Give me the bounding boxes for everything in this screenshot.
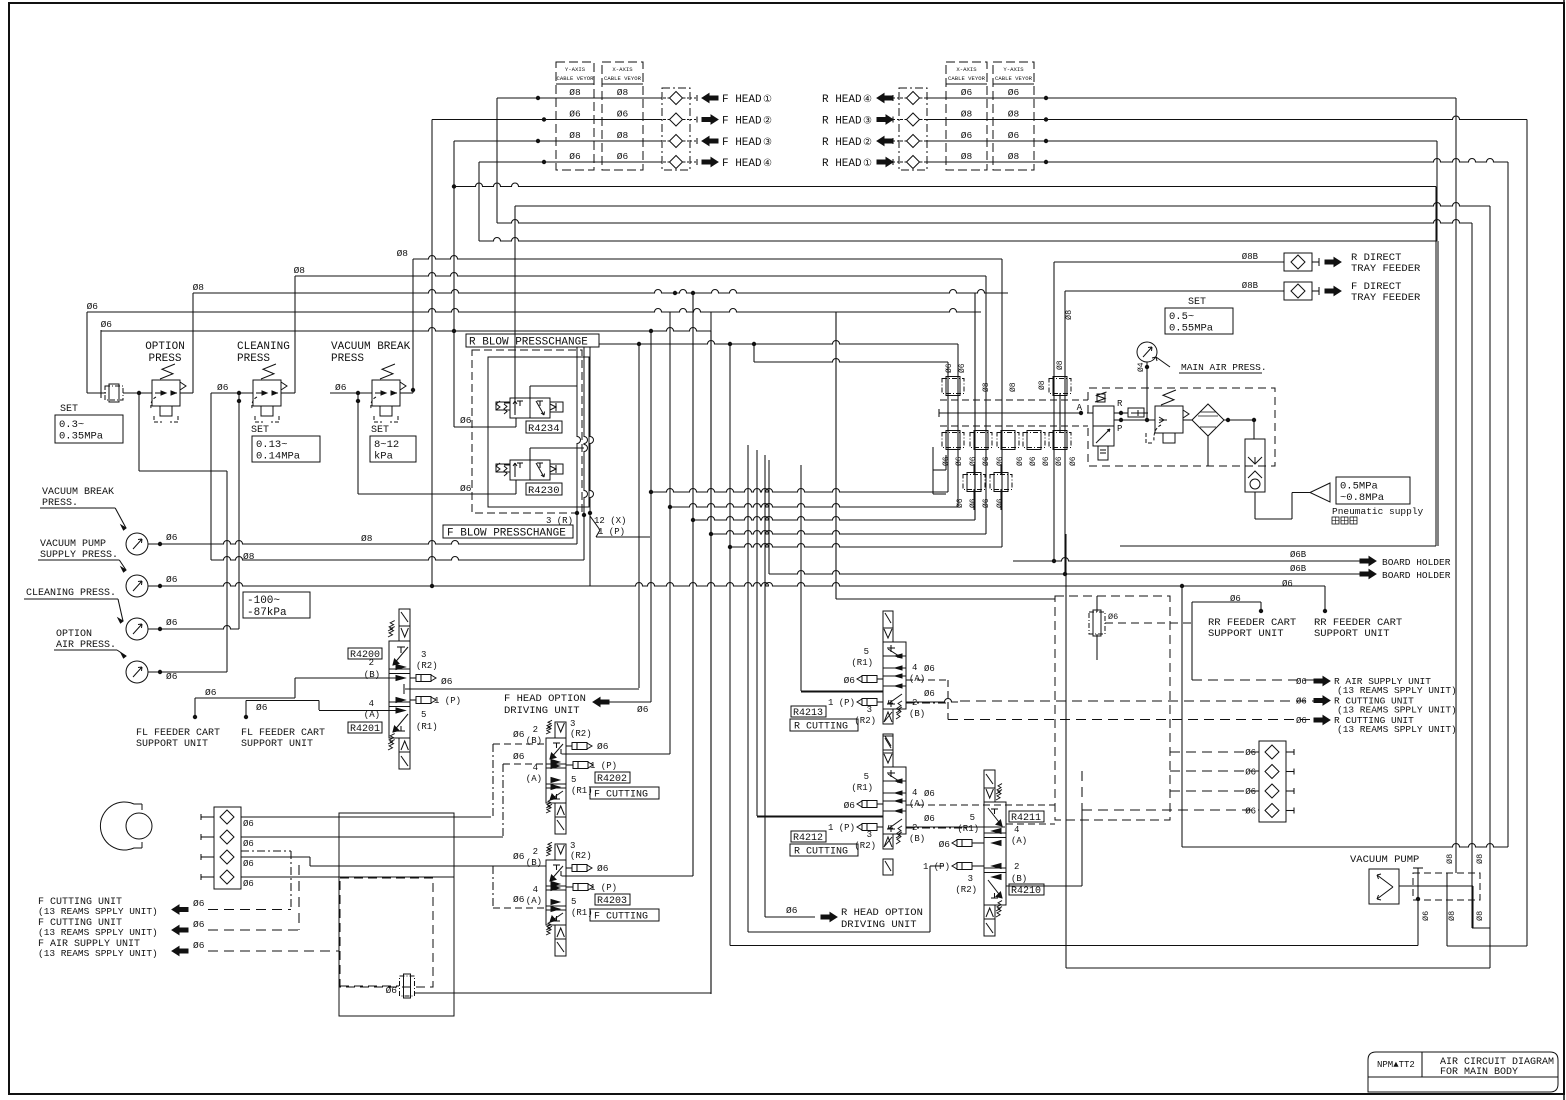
wire	[180, 392, 193, 394]
wire board holder feeds	[1053, 262, 1055, 561]
wire dashed R cutting 1	[960, 700, 1316, 702]
svg-text:Ø6: Ø6	[1055, 456, 1064, 466]
svg-text:Ø6: Ø6	[243, 879, 254, 889]
svg-text:1 (P): 1 (P)	[590, 883, 617, 893]
svg-text:R HEAD: R HEAD	[822, 137, 862, 149]
check valve F DIRECT	[1284, 282, 1312, 300]
svg-text:Ø6: Ø6	[1296, 716, 1307, 726]
fitting Ø6 bottom	[400, 976, 415, 996]
svg-text:BOARD HOLDER: BOARD HOLDER	[1382, 557, 1451, 568]
svg-text:Ø6: Ø6	[256, 702, 268, 713]
wire	[358, 493, 516, 495]
svg-text:Ø8: Ø8	[193, 282, 205, 293]
wire R head 4	[926, 159, 1508, 162]
unit label R CUTTING UNIT	[1314, 696, 1330, 705]
svg-text:0.35MPa: 0.35MPa	[59, 430, 103, 442]
svg-text:Ø8: Ø8	[1447, 911, 1457, 921]
svg-text:Ø6: Ø6	[166, 574, 178, 585]
coupler	[670, 156, 683, 169]
wire R head 1	[926, 97, 1456, 99]
svg-text:5: 5	[421, 710, 426, 720]
wire R head 2	[926, 116, 1527, 119]
svg-text:PRESS: PRESS	[237, 353, 270, 365]
svg-text:Ø8: Ø8	[294, 265, 306, 276]
wire reg1 drain	[138, 393, 140, 471]
R head coupler box	[899, 88, 927, 170]
wire	[974, 293, 976, 520]
svg-text:Ø6: Ø6	[1029, 456, 1038, 466]
wire	[710, 331, 712, 994]
svg-text:Ø6: Ø6	[982, 498, 991, 508]
svg-text:R4202: R4202	[597, 774, 627, 785]
wire gauge2 long line	[148, 583, 1325, 587]
fitting	[1023, 433, 1045, 448]
wire v836	[835, 312, 837, 599]
gauge line Ø4	[1146, 362, 1148, 420]
wire	[123, 392, 152, 394]
svg-text:OPTION: OPTION	[56, 629, 92, 640]
wire 2B	[295, 677, 396, 679]
wire	[609, 701, 651, 703]
wire dashed to rr	[1105, 622, 1192, 624]
svg-text:Ø8: Ø8	[1475, 911, 1485, 921]
fitting	[997, 433, 1019, 448]
wire stair 492	[651, 489, 948, 492]
svg-text:Ø8: Ø8	[569, 130, 581, 141]
svg-text:Ø6: Ø6	[924, 789, 935, 799]
svg-text:Ø6: Ø6	[243, 859, 254, 869]
check valve	[220, 850, 234, 864]
svg-text:(B): (B)	[1011, 874, 1027, 884]
wire board holder 2	[769, 571, 1360, 575]
svg-text:Ø6: Ø6	[996, 456, 1005, 466]
wire	[768, 460, 770, 574]
wire	[211, 392, 253, 394]
wire	[973, 465, 975, 475]
svg-text:A: A	[1077, 403, 1083, 413]
wire	[1224, 419, 1254, 421]
svg-text:F HEAD: F HEAD	[722, 116, 762, 128]
svg-text:Ø8: Ø8	[1056, 360, 1065, 370]
svg-text:R4213: R4213	[793, 708, 823, 719]
svg-text:Ø6: Ø6	[386, 985, 398, 996]
wire	[1455, 98, 1457, 873]
check valve stack right	[1259, 741, 1286, 822]
svg-text:SUPPORT UNIT: SUPPORT UNIT	[136, 739, 208, 750]
svg-text:Ø6: Ø6	[956, 498, 965, 508]
label R4212	[791, 831, 826, 842]
wire	[1066, 967, 1490, 969]
svg-text:Ø6: Ø6	[441, 676, 453, 687]
wire	[1399, 885, 1473, 887]
svg-text:Ø6: Ø6	[955, 456, 964, 466]
svg-text:3: 3	[867, 705, 872, 715]
wire stair 507	[670, 504, 958, 508]
svg-text:R4203: R4203	[597, 896, 627, 907]
svg-text:①: ①	[863, 158, 872, 170]
svg-text:(A): (A)	[526, 774, 542, 784]
fittings row 2	[963, 475, 985, 490]
svg-text:2: 2	[369, 658, 374, 668]
F head coupler box	[662, 88, 690, 170]
svg-text:(R2): (R2)	[416, 661, 438, 671]
wire dashdot	[290, 851, 292, 910]
svg-text:Ø8: Ø8	[1064, 310, 1074, 320]
wire h362	[754, 359, 948, 363]
svg-text:P: P	[1117, 424, 1122, 434]
wire bus 186	[454, 183, 1436, 186]
wire	[454, 426, 516, 428]
wire	[453, 141, 455, 427]
wire dashed 4A R4212	[906, 804, 1055, 806]
label R4213	[791, 706, 826, 717]
wire	[710, 331, 712, 994]
svg-text:CLEANING PRESS.: CLEANING PRESS.	[26, 588, 116, 599]
svg-text:1 (P): 1 (P)	[828, 698, 855, 708]
coupler	[907, 156, 920, 169]
air unit dashed box	[1088, 388, 1275, 466]
svg-text:Ø6: Ø6	[1042, 456, 1051, 466]
svg-text:Pneumatic supply: Pneumatic supply	[1332, 506, 1424, 517]
valve R4200/R4201 double solenoid	[399, 609, 410, 626]
wire board holder 1	[1013, 558, 1360, 562]
silencer R4203 R2	[566, 867, 572, 869]
svg-text:Ø8: Ø8	[1009, 382, 1018, 392]
svg-text:5: 5	[864, 772, 869, 782]
wire	[764, 455, 766, 917]
svg-text:Ø6: Ø6	[637, 704, 649, 715]
svg-text:Ø6B: Ø6B	[1290, 564, 1307, 574]
silencer R4212	[862, 801, 877, 808]
svg-text:BOARD HOLDER: BOARD HOLDER	[1382, 570, 1451, 581]
svg-text:Ø6: Ø6	[513, 851, 525, 862]
wire	[729, 344, 731, 946]
svg-text:Ø6: Ø6	[1008, 87, 1020, 98]
svg-text:SUPPORT UNIT: SUPPORT UNIT	[1314, 628, 1390, 640]
wire	[589, 513, 591, 586]
wire	[414, 992, 711, 994]
wire	[650, 331, 652, 702]
X-axis cable veyor (right)	[946, 62, 987, 170]
svg-text:2: 2	[1014, 862, 1019, 872]
wire	[1489, 928, 1491, 968]
svg-text:Ø6: Ø6	[513, 729, 525, 740]
svg-text:R4234: R4234	[528, 423, 560, 435]
svg-text:Y-AXIS: Y-AXIS	[565, 66, 586, 73]
check valve	[220, 870, 234, 884]
wire dashed 4A R4213	[906, 679, 948, 681]
svg-text:Ø6: Ø6	[597, 741, 609, 752]
svg-text:Ø8: Ø8	[361, 533, 373, 544]
wire dashed P R4202	[503, 763, 546, 765]
svg-text:3: 3	[570, 719, 575, 729]
wire	[431, 120, 433, 588]
wire	[1437, 241, 1439, 546]
svg-text:0.13~: 0.13~	[256, 439, 288, 451]
wire presschange verticals	[577, 347, 581, 513]
svg-text:0.5MPa: 0.5MPa	[1340, 481, 1378, 493]
svg-text:Ø6: Ø6	[193, 940, 205, 951]
fitting	[1049, 433, 1071, 448]
svg-text:(B): (B)	[909, 709, 925, 719]
wire	[281, 392, 295, 394]
svg-text:4: 4	[369, 699, 374, 709]
wire	[1446, 900, 1448, 946]
valve R4230	[510, 460, 530, 480]
label R CUTTING R4213	[790, 719, 858, 731]
wire	[241, 836, 503, 838]
wire	[1182, 844, 1508, 847]
coupler	[907, 113, 920, 126]
svg-text:Ø6: Ø6	[1245, 807, 1256, 817]
svg-text:SET: SET	[371, 425, 389, 436]
svg-text:3: 3	[968, 874, 973, 884]
svg-text:R HEAD OPTION: R HEAD OPTION	[841, 907, 923, 919]
svg-text:TRAY FEEDER: TRAY FEEDER	[1351, 292, 1421, 304]
svg-text:Ø6: Ø6	[786, 905, 798, 916]
svg-text:R4212: R4212	[793, 833, 823, 844]
wire feed	[801, 691, 883, 693]
wire	[86, 312, 88, 393]
svg-text:Ø8: Ø8	[961, 151, 973, 162]
svg-text:1 (P): 1 (P)	[828, 823, 855, 833]
wire out	[562, 753, 671, 755]
svg-text:Y-AXIS: Y-AXIS	[1003, 66, 1024, 73]
coupler	[670, 135, 683, 148]
svg-text:(A): (A)	[909, 799, 925, 809]
wire	[357, 393, 359, 494]
svg-text:SET: SET	[1188, 297, 1206, 308]
svg-text:R HEAD: R HEAD	[822, 94, 862, 106]
svg-text:Ø6: Ø6	[1421, 911, 1431, 921]
wire	[1065, 290, 1260, 292]
svg-text:Ø6: Ø6	[205, 687, 217, 698]
svg-text:(13 REAMS SPPLY UNIT): (13 REAMS SPPLY UNIT)	[38, 927, 158, 938]
svg-text:Ø6: Ø6	[1245, 787, 1256, 797]
svg-text:(R2): (R2)	[955, 885, 977, 895]
svg-text:Ø6: Ø6	[945, 363, 954, 373]
svg-text:R BLOW PRESSCHANGE: R BLOW PRESSCHANGE	[469, 337, 588, 349]
silencer P R4213	[862, 699, 877, 706]
wire dashdot	[492, 744, 494, 817]
svg-text:CABLE VEYOR: CABLE VEYOR	[604, 75, 642, 82]
wire	[1183, 419, 1192, 421]
wire dashdot	[502, 764, 504, 837]
wire 3R line	[599, 341, 958, 344]
wire	[836, 598, 1055, 600]
wire pump tee	[1413, 867, 1423, 869]
dashed box RR	[1055, 596, 1170, 820]
wire	[148, 671, 227, 673]
svg-text:Ø8B: Ø8B	[1242, 252, 1259, 262]
silencer R4202 P	[566, 764, 573, 766]
svg-text:F HEAD: F HEAD	[722, 94, 762, 106]
gauge MAIN AIR PRESS	[1137, 342, 1157, 362]
wire	[932, 447, 934, 494]
svg-text:PRESS.: PRESS.	[42, 498, 78, 509]
silencer 1 (P)	[957, 863, 972, 870]
svg-text:5: 5	[571, 897, 576, 907]
svg-text:Ø6: Ø6	[217, 382, 229, 393]
wire B R4212	[906, 826, 1005, 828]
svg-text:R4230: R4230	[528, 485, 560, 497]
dashed enclosure	[472, 350, 582, 513]
fitting Ø6	[1089, 612, 1105, 634]
wire 4A	[319, 710, 396, 712]
R BLOW PRESSCHANGE label	[466, 334, 599, 347]
fitting	[970, 433, 992, 448]
silencer R2	[410, 677, 416, 679]
svg-text:(13 REAMS SPPLY UNIT): (13 REAMS SPPLY UNIT)	[38, 906, 158, 917]
wire dashdot R4212	[906, 827, 970, 829]
wire	[241, 856, 310, 858]
svg-text:Ø6: Ø6	[961, 87, 973, 98]
svg-text:R HEAD: R HEAD	[822, 158, 862, 170]
solid box bottom left	[339, 813, 454, 1016]
check valve	[1265, 745, 1279, 759]
label R CUTTING R4212	[790, 844, 858, 856]
F HEAD4 label	[690, 161, 697, 163]
wire	[710, 312, 712, 993]
svg-text:VACUUM PUMP: VACUUM PUMP	[40, 539, 106, 550]
svg-text:Ø6: Ø6	[166, 617, 178, 628]
svg-text:R4201: R4201	[350, 724, 380, 735]
wire	[1001, 259, 1003, 547]
svg-text:Ø8: Ø8	[1008, 151, 1020, 162]
wire	[765, 916, 815, 918]
wire steps left	[945, 455, 947, 470]
wire	[1059, 393, 1061, 433]
check valve stack F	[214, 807, 241, 889]
wire F head 3	[454, 140, 662, 142]
svg-text:(13 REAMS SPPLY UNIT): (13 REAMS SPPLY UNIT)	[1337, 705, 1457, 716]
svg-text:Ø8: Ø8	[617, 130, 629, 141]
svg-text:Ø6: Ø6	[844, 800, 856, 811]
svg-text:Ø6: Ø6	[939, 839, 951, 850]
F BLOW PRESSCHANGE label	[443, 525, 573, 538]
dashed channel	[940, 399, 1088, 401]
svg-text:Ø6: Ø6	[844, 675, 856, 686]
wire	[583, 515, 585, 560]
check valve	[1265, 804, 1279, 818]
wire	[1507, 162, 1509, 847]
vacuum pump	[1369, 869, 1399, 904]
X-axis cable veyor (left)	[602, 62, 643, 170]
main regulator	[1155, 406, 1183, 433]
svg-text:TRAY FEEDER: TRAY FEEDER	[1351, 263, 1421, 275]
check unit	[1253, 420, 1255, 439]
svg-text:1 (P): 1 (P)	[434, 696, 461, 706]
svg-text:②: ②	[863, 137, 872, 149]
svg-text:R CUTTING: R CUTTING	[794, 847, 848, 858]
silencer P R4212	[862, 824, 877, 831]
svg-text:Ø6: Ø6	[101, 319, 113, 330]
F HEAD3 label	[690, 140, 697, 142]
svg-text:Ø4: Ø4	[1137, 362, 1146, 372]
Y-axis cable veyor (right)	[993, 62, 1034, 170]
wire	[947, 362, 949, 492]
wire	[1435, 187, 1437, 547]
svg-text:4: 4	[1014, 825, 1019, 835]
label F CUTTING R4203	[590, 909, 659, 921]
wire	[1254, 492, 1256, 519]
svg-text:(R1): (R1)	[571, 786, 593, 796]
wire bus 241	[479, 238, 1437, 241]
wire	[1526, 120, 1528, 947]
svg-text:Ø8: Ø8	[1008, 108, 1020, 119]
svg-text:(A): (A)	[526, 896, 542, 906]
wire	[400, 392, 413, 394]
svg-text:(13 REAMS SPPLY UNIT): (13 REAMS SPPLY UNIT)	[1337, 685, 1457, 696]
valve R4211/R4210 double	[984, 770, 995, 788]
wire dashed R cutting 2	[948, 719, 1316, 721]
wire A line	[939, 412, 1081, 414]
svg-text:Ø6: Ø6	[460, 415, 472, 426]
svg-text:(B): (B)	[909, 834, 925, 844]
svg-text:Ø6: Ø6	[961, 130, 973, 141]
svg-text:Ø6B: Ø6B	[1290, 550, 1307, 560]
svg-text:Ø6: Ø6	[569, 151, 581, 162]
wire	[1065, 534, 1067, 968]
svg-text:F HEAD: F HEAD	[722, 137, 762, 149]
label F CUTTING R4202	[590, 787, 659, 799]
wire bus 223	[497, 220, 1472, 224]
svg-text:(R2): (R2)	[570, 851, 592, 861]
wire dashed	[298, 865, 300, 930]
wire dashed	[208, 929, 299, 931]
unit label R AIR SUPPLY UNIT	[1314, 677, 1330, 686]
wire	[1096, 596, 1098, 612]
wire stair 534	[711, 531, 986, 534]
wire dashed	[208, 950, 339, 952]
wire	[514, 206, 516, 413]
svg-text:NPM▲TT2: NPM▲TT2	[1377, 1060, 1415, 1070]
svg-text:2: 2	[533, 847, 538, 857]
wire	[753, 344, 755, 362]
svg-text:R CUTTING: R CUTTING	[794, 722, 848, 733]
wire	[210, 393, 212, 560]
fitting Ø6	[942, 379, 964, 394]
wire F head 4	[479, 161, 662, 163]
svg-text:FOR MAIN BODY: FOR MAIN BODY	[1440, 1067, 1518, 1078]
check valve R DIRECT	[1284, 253, 1312, 271]
svg-text:Ø6: Ø6	[1016, 456, 1025, 466]
svg-text:F CUTTING: F CUTTING	[594, 912, 648, 923]
svg-text:Ø6: Ø6	[958, 363, 967, 373]
valve R4213	[883, 611, 893, 628]
svg-text:Ø8B: Ø8B	[1242, 281, 1259, 291]
svg-text:②: ②	[763, 116, 772, 128]
wire R HEAD OPTION bottom	[748, 931, 930, 933]
wire dashdot	[492, 866, 494, 908]
valve R4203	[555, 844, 566, 860]
svg-text:Ø8: Ø8	[1445, 854, 1455, 864]
svg-text:Ø6: Ø6	[243, 839, 254, 849]
pneumatic supply triangle	[1310, 483, 1330, 502]
wire dashed 2B R4202	[493, 743, 546, 745]
wire v836	[835, 312, 837, 599]
svg-text:R: R	[1117, 399, 1123, 409]
wire R head 3	[926, 140, 1437, 142]
svg-text:R4210: R4210	[1011, 886, 1041, 897]
wire	[1447, 945, 1527, 947]
svg-text:SET: SET	[251, 425, 269, 436]
svg-text:SET: SET	[60, 404, 78, 415]
wire dashed R4203	[493, 907, 546, 909]
fitting	[942, 433, 964, 448]
svg-text:AIR PRESS.: AIR PRESS.	[56, 640, 116, 651]
wire stair 520	[693, 517, 975, 520]
